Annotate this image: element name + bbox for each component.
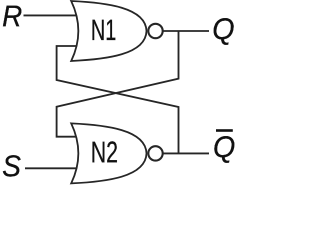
wire feedback from Q junction to N2 upper input <box>57 31 179 137</box>
wire feedback from Q-bar junction to N1 lower input <box>57 46 179 153</box>
svg-text:R: R <box>2 0 22 33</box>
NOR gate N1 body <box>71 1 146 61</box>
wire R input <box>24 14 81 16</box>
NOR gate N1 inversion bubble <box>148 24 162 38</box>
overbar of Q-bar <box>216 129 233 132</box>
svg-text:N2: N2 <box>91 136 118 169</box>
svg-text:N1: N1 <box>91 14 116 47</box>
svg-text:Q: Q <box>212 13 234 46</box>
NOR gate N2 inversion bubble <box>148 146 162 160</box>
wire S input <box>25 167 80 169</box>
wire N1 output to Q <box>163 30 209 32</box>
wire N2 output to Q-bar <box>163 152 209 154</box>
svg-text:S: S <box>2 150 21 183</box>
svg-text:Q: Q <box>213 131 235 164</box>
NOR gate N2 body <box>71 123 146 183</box>
